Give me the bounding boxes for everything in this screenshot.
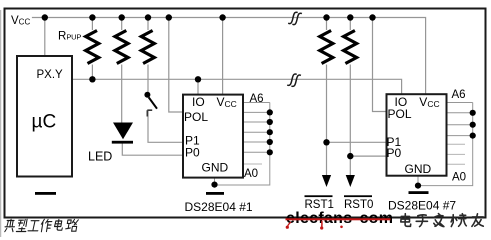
break symbol on VCC rail xyxy=(288,12,302,24)
svg-text:POL: POL xyxy=(388,107,412,121)
wire U1 address bus to GND xyxy=(215,103,270,186)
svg-text:LED: LED xyxy=(88,150,112,164)
junction dot VCC/POL1 xyxy=(166,14,172,20)
RST1 overbar xyxy=(305,195,333,197)
wire POL7 from VCC xyxy=(373,18,388,112)
svg-text:µC: µC xyxy=(32,112,57,133)
char 发 xyxy=(434,214,444,227)
U7 ground bar xyxy=(409,191,429,194)
wire U7 address bus to GND xyxy=(418,103,473,186)
arrow RST0 head xyxy=(346,175,355,187)
wire U1 short stub xyxy=(243,163,262,165)
svg-text:POL: POL xyxy=(184,110,208,124)
char 型 xyxy=(16,219,27,231)
resistor R3 xyxy=(141,31,154,64)
junction dot U1 bus A3 xyxy=(267,129,273,135)
junction dot U7 bus A5 xyxy=(470,110,476,116)
char 工 xyxy=(28,221,40,231)
junction dot P1/RST1 xyxy=(323,139,329,145)
char 子 xyxy=(416,215,427,227)
resistor R2 xyxy=(115,31,128,64)
junction dot U7 bus A4 xyxy=(470,122,476,128)
junction dot VCC/R5 xyxy=(347,14,353,20)
junction dot VCC/R4 xyxy=(323,14,329,20)
wire U7 address stubs xyxy=(447,103,473,136)
ground bar under uC xyxy=(35,192,56,195)
junction dot P0/RST0 xyxy=(347,153,353,159)
wire U7 GND stub xyxy=(417,177,419,186)
watermark 电子发烧友 (calligraphic) xyxy=(401,214,484,227)
char 电 xyxy=(54,219,64,230)
junction dot U7 bus A3 xyxy=(470,133,476,139)
wire U1 GND stub xyxy=(214,179,216,185)
wire R1 leads xyxy=(91,18,93,80)
wire P0 of U7 xyxy=(350,155,387,157)
junction dot VCC/uC xyxy=(42,14,48,20)
resistor R5 xyxy=(344,31,357,64)
svg-text:A6: A6 xyxy=(452,89,466,101)
wire LED cathode to P0 xyxy=(122,144,183,156)
wire switch to P1 xyxy=(148,110,183,142)
break symbol on IO rail xyxy=(287,74,301,86)
wire IO1 stub xyxy=(197,79,199,95)
wire R5 leads and RST0 line xyxy=(349,18,351,176)
char 典 xyxy=(4,219,16,231)
microcontroller uC box xyxy=(17,56,72,177)
junction dot U1 bus A1 xyxy=(267,149,273,155)
svg-text:VCC: VCC xyxy=(11,15,30,27)
LED D1 cathode bar xyxy=(112,141,133,144)
char 作 xyxy=(40,219,52,232)
wire POL1 from VCC xyxy=(169,18,183,113)
svg-text:P0: P0 xyxy=(387,146,402,160)
junction dot VCC/POL7 xyxy=(369,14,375,20)
svg-text:GND: GND xyxy=(202,161,229,175)
RST0 overbar xyxy=(344,195,372,197)
char 烧 xyxy=(451,214,466,227)
wire U7 short stubs xyxy=(447,144,466,164)
resistor R4 xyxy=(320,31,333,64)
junction dot VCC/R2 xyxy=(119,14,125,20)
U7 ground dot xyxy=(415,183,421,189)
svg-text:GND: GND xyxy=(405,162,432,176)
svg-text:A0: A0 xyxy=(452,172,466,184)
left edge artifact line xyxy=(0,10,2,237)
wire R4 leads and RST1 line xyxy=(326,18,328,176)
char 路 xyxy=(65,219,78,231)
svg-text:A6: A6 xyxy=(250,93,264,105)
junction dot VCC/U1 xyxy=(219,14,225,20)
char 电 xyxy=(401,214,411,227)
junction dot PX.Y/R1 xyxy=(89,76,95,82)
resistor R1 xyxy=(86,31,99,64)
wire R3 leads xyxy=(147,18,149,93)
junction dot U1 bus A2 xyxy=(267,139,273,145)
junction dot U1 bus A4 xyxy=(267,119,273,125)
wire IO rail PX.Y xyxy=(73,79,402,95)
wire VCC top rail xyxy=(32,18,426,95)
DS28E04 U1 box xyxy=(183,95,243,178)
LED D1 triangle xyxy=(113,123,133,140)
watermark s drip xyxy=(340,226,343,229)
svg-text:DS28E04 #1: DS28E04 #1 xyxy=(185,200,253,214)
junction dot PX.Y/IO1 xyxy=(195,76,201,82)
arrow RST1 head xyxy=(322,175,331,187)
junction dot VCC/R1 xyxy=(89,14,95,20)
U1 ground bar xyxy=(206,192,224,195)
wire P1 of U7 xyxy=(327,141,388,143)
svg-text:P0: P0 xyxy=(185,146,200,160)
caption 典型工作电路 (typical operating circuit) xyxy=(4,219,78,232)
svg-text:A0: A0 xyxy=(244,168,258,180)
DS28E04 U7 box xyxy=(387,94,447,176)
switch S1 arm xyxy=(149,97,157,108)
junction dot VCC/R3 xyxy=(145,14,151,20)
char 友 xyxy=(472,214,483,227)
wire VCC1 drop xyxy=(222,18,224,96)
svg-text:DS28E04 #7: DS28E04 #7 xyxy=(388,199,456,213)
wire U1 address stubs A6..A1 xyxy=(243,103,270,153)
junction dot U1 bus A5 xyxy=(267,109,273,115)
switch S1 contact dot xyxy=(144,92,150,98)
svg-text:IO: IO xyxy=(192,95,205,109)
watermark f descender xyxy=(321,221,323,227)
wire R2 leads xyxy=(121,18,123,124)
watermark strikethrough xyxy=(286,218,391,220)
switch S1 fixed contact xyxy=(147,110,152,116)
svg-text:PX.Y: PX.Y xyxy=(37,69,64,81)
wire uC VCC drop xyxy=(44,18,46,57)
U1 ground dot xyxy=(211,182,217,188)
watermark e drip xyxy=(288,222,292,227)
svg-text:RPUP: RPUP xyxy=(58,30,81,42)
